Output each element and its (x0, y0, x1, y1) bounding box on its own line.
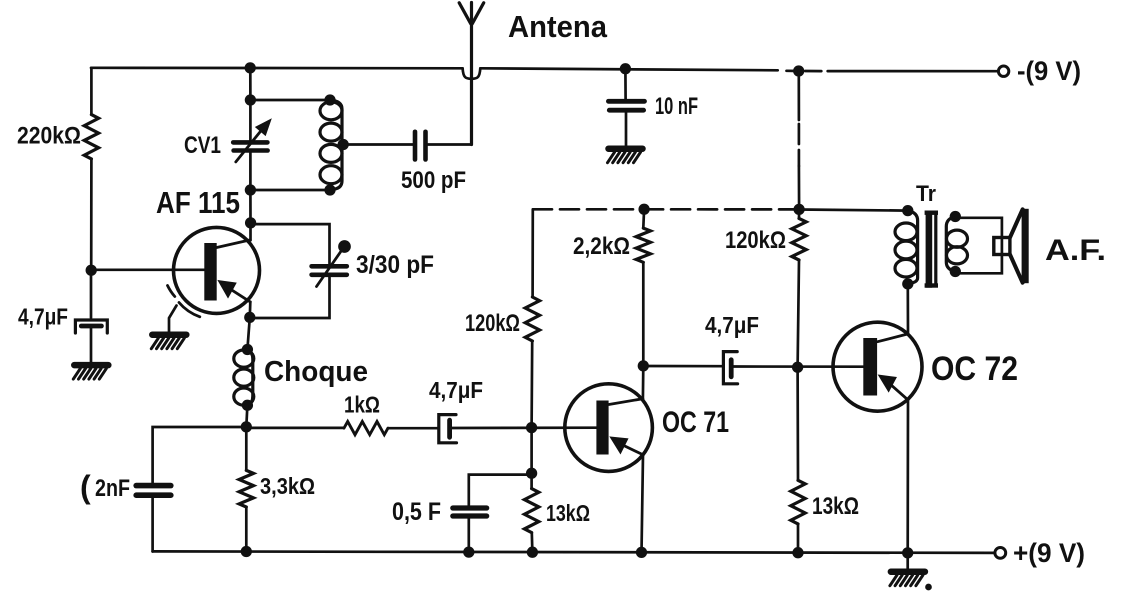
wire bottom +9V rail (153, 551, 995, 553)
node bottom rail / OC71 emitter (637, 548, 646, 557)
wire top rail down (with dashes) (797, 71, 800, 120)
antenna (459, 3, 484, 145)
node AF115 collector / trimmer branch (246, 219, 255, 228)
svg-text:13kΩ: 13kΩ (812, 493, 859, 520)
wire top rail dash-dot segments near node (787, 69, 800, 72)
wire mid rail to transformer (799, 210, 908, 211)
wire tap down to 13k left (530, 473, 533, 488)
wire tap to 0,5F branch (469, 475, 532, 505)
wire junction left to 2nF branch (153, 427, 247, 482)
resistor 120kOhm (left) (525, 297, 539, 341)
svg-text:OC 72: OC 72 (931, 350, 1018, 388)
wire dashed mid rail left (533, 208, 644, 211)
wire top rail middle segment (480, 68, 777, 70)
ground (below left 4,7uF) (74, 362, 108, 369)
wire 3,3k to bottom rail (245, 507, 248, 552)
terminal +(9V) (995, 548, 1006, 559)
svg-text:-(9 V): -(9 V) (1017, 56, 1081, 86)
svg-text:13kΩ: 13kΩ (546, 500, 590, 526)
wire tank bottom to coil bottom (250, 189, 330, 192)
transistor AF115 shield dashed arc (168, 286, 175, 297)
wire 4,7uF to OC72 base (734, 365, 864, 368)
node base AF115 left (87, 266, 96, 275)
svg-text:OC 71: OC 71 (662, 406, 729, 439)
node top rail / 10nF (621, 65, 630, 74)
capacitor 4,7uF (left, bracket style) (75, 320, 107, 333)
svg-text:4,7μF: 4,7μF (705, 312, 759, 338)
svg-text:+(9 V): +(9 V) (1013, 538, 1085, 568)
svg-text:0,5 F: 0,5 F (392, 498, 441, 526)
wire CV1 to tank bottom node (249, 151, 252, 190)
wire 2nF to bottom rail (151, 499, 154, 552)
wire OC72 emitter to bottom rail (906, 400, 909, 554)
capacitor 10nF (608, 99, 644, 104)
resistor 220kOhm (84, 115, 98, 159)
wire top rail hop under antenna lead (463, 68, 481, 79)
wire top rail right segment to -9V terminal (828, 70, 999, 73)
svg-text:10 nF: 10 nF (655, 93, 698, 120)
node transformer primary top (904, 206, 913, 215)
node transformer secondary top (951, 212, 960, 221)
ground (OC72 emitter) (906, 553, 909, 570)
wire secondary to speaker (955, 218, 1002, 273)
node OC71 base / divider (527, 423, 536, 432)
wire 4,7uF to OC71 base (452, 426, 596, 429)
capacitor 0,5F (453, 505, 487, 510)
resistor 120kOhm (right) (792, 218, 806, 260)
wire OC71 emitter to bottom rail (642, 455, 644, 553)
capacitor 3/30pF trimmer (312, 264, 347, 269)
node coil tap (339, 140, 348, 149)
wire coil tap to 500pF (343, 143, 413, 146)
node OC72 base (793, 363, 802, 372)
wire 4,7uF to ground (90, 328, 93, 363)
svg-text:CV1: CV1 (184, 132, 221, 159)
svg-text:3/30 pF: 3/30 pF (356, 251, 434, 279)
svg-text:(: ( (80, 469, 91, 505)
wire OC72 collector to transformer (906, 284, 909, 334)
resistor 13kOhm (left) (524, 489, 538, 533)
node bottom rail / 3,3k (242, 547, 251, 556)
wire collector node to trimmer top (251, 224, 330, 263)
node bottom rail / 0,5F (465, 548, 474, 557)
svg-text:1kΩ: 1kΩ (344, 392, 380, 418)
transistor OC71 (565, 384, 653, 472)
svg-text:Antena: Antena (508, 9, 608, 44)
node tank top branch (246, 96, 255, 105)
speaker A.F. (994, 209, 1029, 283)
transistor AF115 (174, 227, 260, 313)
resistor 1kOhm (344, 422, 388, 435)
svg-text:4,7μF: 4,7μF (18, 304, 68, 330)
inductor choke (234, 350, 254, 367)
node top rail / tank (246, 64, 255, 73)
resistor 2,2kOhm (636, 228, 650, 262)
wire 13k right to bottom rail (797, 524, 800, 554)
node bottom rail / 13k left (528, 548, 537, 557)
node choke bottom (243, 401, 252, 410)
wire AF115 base (91, 268, 204, 271)
capacitor CV1 variable (233, 140, 267, 145)
node coil L1 bottom (326, 186, 335, 195)
node emitter / trimmer (246, 313, 255, 322)
wire 500pF to antenna lead (428, 143, 472, 146)
transistor OC72 (833, 322, 922, 411)
wire 120k right to OC72 base node (798, 260, 799, 367)
wire 1k to 4,7uF (388, 427, 439, 430)
wire OC71 collector to 4,7uF (643, 365, 722, 368)
svg-text:A.F.: A.F. (1045, 234, 1106, 267)
wire base node down to tap (530, 428, 533, 474)
wire mid rail down to 120k right (798, 209, 801, 218)
node mid rail / 2,2k (640, 205, 649, 214)
svg-text:4,7μF: 4,7μF (429, 377, 483, 403)
wire AF115 emitter down (248, 302, 251, 318)
wire base node down to 4,7uF (90, 270, 93, 318)
node choke / 1k / 3,3k junction (242, 423, 251, 432)
wire tank top to coil top (250, 99, 330, 102)
wire dashed mid rail right (644, 208, 799, 211)
svg-text:Tr: Tr (916, 181, 936, 206)
wire dashed-node down to 120k left (531, 209, 534, 297)
transformer Tr core (926, 211, 933, 288)
terminal -(9V) (998, 66, 1008, 76)
svg-text:2nF: 2nF (95, 475, 130, 502)
node transformer primary bottom (904, 280, 913, 289)
node transformer secondary bottom (951, 267, 960, 276)
node mid rail / 120k right (795, 205, 804, 214)
wire 120k left to base node (530, 341, 533, 428)
svg-text:220kΩ: 220kΩ (17, 123, 81, 150)
wire choke to junction (246, 405, 247, 427)
node choke top (243, 345, 252, 354)
wire trimmer bottom to emitter node (250, 277, 330, 318)
node coil L1 top (326, 96, 335, 105)
wire OC71 collector up (642, 366, 645, 399)
capacitor 2nF (136, 483, 171, 489)
wire rail to 10nF (624, 69, 627, 99)
inductor L1 tank coil (320, 102, 342, 120)
node tank bottom branch (246, 186, 255, 195)
wire junction down to 3,3k (245, 427, 248, 471)
wire left vertical from top rail (90, 68, 93, 115)
svg-text:120kΩ: 120kΩ (465, 310, 520, 337)
node 0,5F tap (527, 469, 536, 478)
node top rail / 120k right (794, 67, 803, 76)
node bottom rail / OC72 emitter (903, 549, 912, 558)
svg-text:120kΩ: 120kΩ (725, 227, 786, 254)
ground (AF115 shield) (152, 331, 186, 338)
wire shield to ground (169, 306, 177, 334)
wire 220k to base node (90, 159, 93, 270)
wire 10nF to ground (625, 113, 628, 147)
capacitor 4,7uF (OC71 base, bracket style) (439, 415, 457, 443)
ground (10nF) (609, 145, 643, 152)
wire top -9V rail left segment (91, 66, 463, 69)
wire tank to AF115 collector (249, 190, 252, 223)
svg-text:AF 115: AF 115 (156, 185, 240, 220)
capacitor 4,7uF (OC72 base, bracket style) (723, 352, 737, 384)
wire tank vertical upper (249, 68, 252, 100)
svg-text:500 pF: 500 pF (401, 167, 466, 194)
resistor 3,3kOhm (239, 470, 253, 507)
wire tank vertical to CV1 (249, 100, 252, 141)
svg-text:2,2kΩ: 2,2kΩ (573, 233, 630, 260)
resistor 13kOhm (right) (791, 480, 805, 524)
wire 0,5F to bottom rail (467, 519, 470, 554)
wire OC72 base node down to 13k right (796, 367, 799, 480)
wire 2,2k to dashed rail (642, 209, 645, 228)
node bottom rail / 13k right (794, 548, 803, 557)
wire 13k left to bottom rail (530, 533, 533, 554)
svg-text:3,3kΩ: 3,3kΩ (260, 473, 315, 499)
transformer Tr secondary winding (947, 230, 968, 247)
wire junction to 1k resistor (246, 427, 344, 430)
capacitor 500pF (413, 132, 418, 160)
transformer Tr primary winding (895, 223, 917, 241)
node OC71 collector / coupling (639, 362, 648, 371)
svg-text:Choque: Choque (264, 356, 368, 388)
